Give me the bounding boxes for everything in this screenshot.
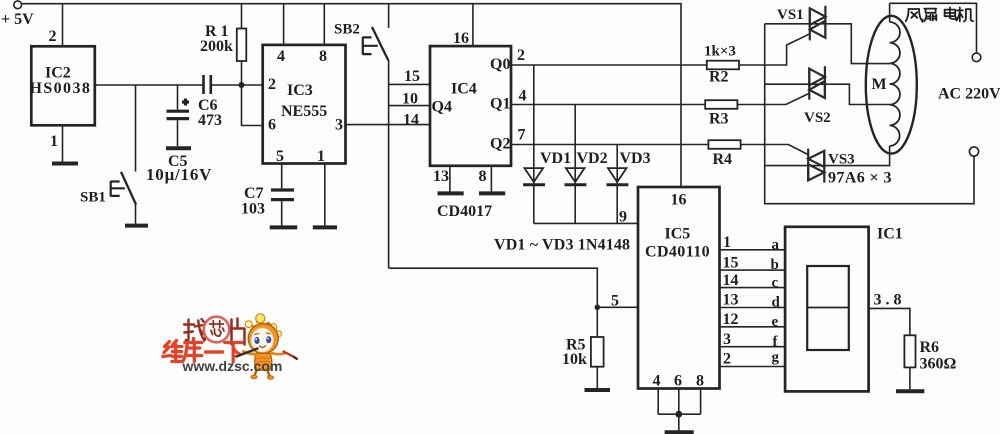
svg-text:1: 1 <box>723 234 731 251</box>
svg-text:4: 4 <box>653 373 661 390</box>
svg-text:14: 14 <box>723 272 739 289</box>
svg-text:Q0: Q0 <box>490 56 510 73</box>
svg-text:1: 1 <box>317 148 325 165</box>
svg-text:14: 14 <box>403 111 419 128</box>
svg-text:9: 9 <box>619 209 627 226</box>
svg-text:2: 2 <box>49 28 57 45</box>
svg-text:AC 220V: AC 220V <box>938 86 1000 103</box>
svg-text:4: 4 <box>519 88 527 105</box>
svg-text:3: 3 <box>723 331 731 348</box>
svg-text:97A6 × 3: 97A6 × 3 <box>828 170 892 187</box>
svg-text:HS0038: HS0038 <box>30 80 92 97</box>
svg-text:10: 10 <box>402 91 418 108</box>
svg-text:3: 3 <box>335 117 343 134</box>
svg-text:d: d <box>772 295 781 311</box>
svg-text:5: 5 <box>276 148 284 165</box>
svg-text:15: 15 <box>723 255 739 272</box>
svg-text:IC4: IC4 <box>451 81 477 98</box>
svg-text:16: 16 <box>671 192 687 209</box>
svg-text:a: a <box>772 237 780 253</box>
svg-text:2: 2 <box>723 351 731 368</box>
svg-text:12: 12 <box>723 311 739 328</box>
svg-text:2: 2 <box>517 47 525 64</box>
svg-text:10μ/16V: 10μ/16V <box>146 165 212 184</box>
svg-text:SB1: SB1 <box>80 190 106 206</box>
svg-text:13: 13 <box>433 168 449 185</box>
svg-text:VD1 ~ VD3 1N4148: VD1 ~ VD3 1N4148 <box>494 237 630 254</box>
svg-text:VS1: VS1 <box>777 7 804 23</box>
svg-text:1k×3: 1k×3 <box>704 44 736 60</box>
svg-text:8: 8 <box>319 48 327 65</box>
svg-text:R3: R3 <box>709 111 729 128</box>
svg-text:6: 6 <box>674 373 682 390</box>
svg-text:4: 4 <box>277 48 285 65</box>
svg-text:103: 103 <box>241 200 265 217</box>
svg-text:3.8: 3.8 <box>874 292 906 309</box>
svg-text:IC2: IC2 <box>45 65 71 82</box>
svg-text:R4: R4 <box>713 151 733 168</box>
svg-text:IC3: IC3 <box>287 82 313 99</box>
svg-text:VD3: VD3 <box>620 150 651 167</box>
svg-text:8: 8 <box>696 373 704 390</box>
svg-text:16: 16 <box>453 30 469 47</box>
svg-text:VD2: VD2 <box>577 150 608 167</box>
svg-text:VS2: VS2 <box>804 110 831 126</box>
svg-text:473: 473 <box>198 112 222 129</box>
svg-text:c: c <box>772 275 779 291</box>
svg-text:R2: R2 <box>709 69 729 86</box>
svg-text:R6: R6 <box>920 339 940 356</box>
svg-text:f: f <box>773 334 779 350</box>
svg-text:IC1: IC1 <box>877 226 903 243</box>
svg-text:5: 5 <box>611 293 619 310</box>
svg-text:CD40110: CD40110 <box>645 244 710 261</box>
svg-text:6: 6 <box>268 117 276 134</box>
svg-text:M: M <box>872 76 887 93</box>
svg-text:NE555: NE555 <box>281 103 327 120</box>
svg-text:360Ω: 360Ω <box>920 356 957 373</box>
svg-text:7: 7 <box>518 127 526 144</box>
svg-text:+ 5V: + 5V <box>1 11 34 28</box>
svg-text:IC5: IC5 <box>665 226 691 243</box>
svg-text:www.dzsc.com: www.dzsc.com <box>182 358 283 374</box>
svg-text:VS3: VS3 <box>828 152 855 168</box>
svg-text:SB2: SB2 <box>334 22 360 38</box>
svg-text:2: 2 <box>268 76 276 93</box>
svg-text:15: 15 <box>404 68 420 85</box>
svg-text:1: 1 <box>50 133 58 150</box>
svg-text:13: 13 <box>723 292 739 309</box>
svg-text:g: g <box>772 350 780 366</box>
svg-text:CD4017: CD4017 <box>437 203 492 220</box>
svg-text:b: b <box>771 257 779 273</box>
svg-text:10k: 10k <box>562 351 587 368</box>
svg-text:200k: 200k <box>200 38 233 55</box>
svg-text:8: 8 <box>479 168 487 185</box>
svg-text:VD1: VD1 <box>540 150 571 167</box>
svg-text:Q4: Q4 <box>432 99 452 116</box>
svg-text:Q1: Q1 <box>490 96 510 113</box>
svg-text:e: e <box>772 314 779 330</box>
svg-text:Q2: Q2 <box>490 136 510 153</box>
